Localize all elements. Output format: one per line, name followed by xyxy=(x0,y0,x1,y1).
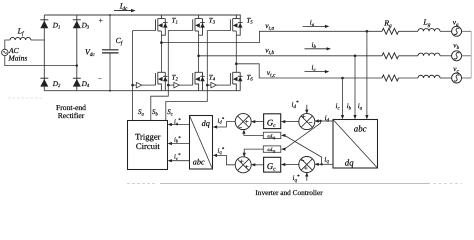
wire: source vc to right bus xyxy=(462,77,472,79)
wire: driver1 to T2 gate xyxy=(142,84,156,86)
wire: Sa to driver 1 xyxy=(133,84,137,86)
svg-text:−: − xyxy=(98,76,102,83)
node: Sc driver tap xyxy=(206,84,209,87)
gate wire Sa xyxy=(133,31,156,121)
wire: driver3 to T6 gate xyxy=(216,84,230,86)
wire: DC bottom rail xyxy=(44,90,240,92)
source vb xyxy=(452,51,462,61)
summing junction S1 xyxy=(299,114,315,130)
svg-text:−: − xyxy=(309,120,313,127)
block wLg2 xyxy=(263,146,281,152)
diode D1 xyxy=(40,20,48,28)
wire: leg1 mid xyxy=(160,31,162,72)
wire: phase b L to source xyxy=(440,55,452,57)
arrow ic xyxy=(305,71,326,73)
boundary line: inverter and controller xyxy=(127,183,155,185)
svg-text:+: + xyxy=(245,163,249,171)
node: phase c tap xyxy=(235,63,238,66)
transistor T5 xyxy=(230,15,242,35)
wire: iq crosslink to wLg1 xyxy=(285,135,322,164)
wire: wLg1 to S2 xyxy=(244,133,263,135)
diode D4 xyxy=(73,78,81,86)
node: Sb driver tap xyxy=(167,84,170,87)
node: sense tap b xyxy=(354,55,357,58)
arrow ib xyxy=(305,48,328,50)
svg-text:Rectifier: Rectifier xyxy=(58,111,85,120)
svg-text:Circuit: Circuit xyxy=(136,141,160,151)
wire: AC source bottom to bridge right leg xyxy=(5,56,77,66)
wire: S2 to dq box xyxy=(216,122,235,127)
inductor Lg b xyxy=(418,53,440,56)
inductor Lg c xyxy=(418,75,440,78)
wire: Gc2 to S4 xyxy=(255,164,264,166)
block: Trigger Circuit xyxy=(128,121,168,170)
resistor Rg a xyxy=(382,28,399,34)
wire: Gc1 to S2 xyxy=(255,121,264,123)
resistor Rg c xyxy=(382,75,399,81)
svg-text:Inverter and Controller: Inverter and Controller xyxy=(255,188,323,197)
gate driver U3 xyxy=(211,82,217,87)
svg-text:−: − xyxy=(301,157,305,164)
diode D2 xyxy=(40,78,48,86)
wire: Cf bottom lead xyxy=(109,53,111,90)
block: abc to dq xyxy=(333,120,378,169)
wire: iq* into S3 xyxy=(306,176,308,181)
svg-text:abc: abc xyxy=(354,123,367,133)
wire: sense b down xyxy=(354,56,356,116)
AC source V1 xyxy=(2,49,8,55)
node: phase a tap xyxy=(160,41,163,44)
wire: id crosslink to wLg2 xyxy=(285,121,321,149)
transistor T2 xyxy=(156,72,168,90)
wire: S1 to Gc1 xyxy=(285,121,300,123)
svg-text:+: + xyxy=(304,164,308,172)
capacitor Cf xyxy=(102,49,119,51)
svg-text:Mains: Mains xyxy=(7,53,27,62)
block Gc1 xyxy=(264,114,281,129)
wire: phase c out xyxy=(236,64,382,78)
wire: sense a down xyxy=(366,31,368,115)
wire: inductor to bridge left leg xyxy=(31,39,45,41)
wire: phase c R to L xyxy=(399,77,419,79)
diode D3 xyxy=(73,20,81,28)
gate driver U1 xyxy=(136,82,142,87)
gate wire Sb xyxy=(151,31,193,121)
svg-text:+: + xyxy=(99,16,103,25)
wire: source vb to right bus xyxy=(462,55,472,57)
arrow Idc xyxy=(114,10,132,12)
wire: iq into S3 xyxy=(318,163,333,165)
wire: id* into S1 xyxy=(306,105,308,111)
wire: Sc to driver 3 xyxy=(207,84,211,86)
gate wire Sc xyxy=(166,31,231,121)
wire: phase a R to L xyxy=(399,30,419,32)
node: sense tap c xyxy=(341,77,344,80)
wire: S4 to dq box xyxy=(216,155,235,164)
node: cap top xyxy=(109,14,111,16)
wire: source va to right bus xyxy=(462,30,472,32)
node: phase b tap xyxy=(197,55,200,58)
source vc xyxy=(452,73,462,83)
node: id branch xyxy=(319,120,321,122)
wire: AC source top to inductor xyxy=(5,40,10,49)
wire: rectifier left leg xyxy=(43,15,45,91)
summing junction S4 xyxy=(235,157,251,173)
wire: phase b R to L xyxy=(399,55,419,57)
node: sense tap a xyxy=(366,30,369,33)
svg-text:dq: dq xyxy=(202,119,210,128)
block: dq to abc xyxy=(190,116,213,170)
wire: Cf top lead xyxy=(109,15,111,49)
transistor T4 xyxy=(193,72,205,90)
wire: sense c down xyxy=(342,78,344,116)
node: AC bottom junction xyxy=(76,64,78,66)
wire: ib* to trigger xyxy=(171,143,189,145)
svg-text:−: − xyxy=(239,125,243,132)
block wLg1 xyxy=(263,132,281,138)
arrow ia xyxy=(303,25,326,27)
dashed boundary left xyxy=(8,97,42,99)
wire: phase c L to source xyxy=(440,77,452,79)
wire: Sb to driver 2 xyxy=(168,84,174,86)
wire: wLg2 to S4 xyxy=(244,149,263,153)
wire: ia* to trigger xyxy=(171,124,189,126)
summing junction S3 xyxy=(299,157,315,173)
svg-text:Trigger: Trigger xyxy=(135,131,161,141)
wire: phase a L to source xyxy=(440,30,452,32)
gate driver U2 xyxy=(174,82,180,87)
svg-text:+: + xyxy=(245,118,249,126)
wire: driver2 to T4 gate xyxy=(179,84,192,86)
wire: phase b out xyxy=(199,55,382,57)
wire: rectifier right leg xyxy=(76,15,78,91)
node: Sa driver tap xyxy=(131,84,134,87)
svg-text:+: + xyxy=(302,113,306,121)
wire: right neutral bus xyxy=(470,31,472,78)
wire: S3 to Gc2 xyxy=(285,164,300,166)
node: iq branch xyxy=(320,163,322,165)
transistor T6 xyxy=(230,72,242,90)
resistor Rg b xyxy=(382,53,399,59)
transistor T3 xyxy=(193,15,205,35)
transistor T1 xyxy=(156,15,168,35)
node: cap bottom xyxy=(109,90,111,92)
summing junction S2 xyxy=(235,114,251,130)
wire: leg3 mid xyxy=(235,31,237,72)
wire: phase a out xyxy=(161,31,382,42)
source va xyxy=(452,26,462,36)
wire: leg2 mid xyxy=(198,31,200,72)
svg-text:+: + xyxy=(240,157,244,165)
inductor Lg a xyxy=(418,29,440,32)
wire: id into S1 xyxy=(318,120,333,122)
svg-text:dq: dq xyxy=(345,157,354,167)
wire: ic* to trigger xyxy=(171,160,189,162)
inductor Lf xyxy=(10,37,31,40)
svg-text:abc: abc xyxy=(193,157,205,166)
wire: DC top rail xyxy=(44,15,240,19)
block Gc2 xyxy=(264,157,281,172)
